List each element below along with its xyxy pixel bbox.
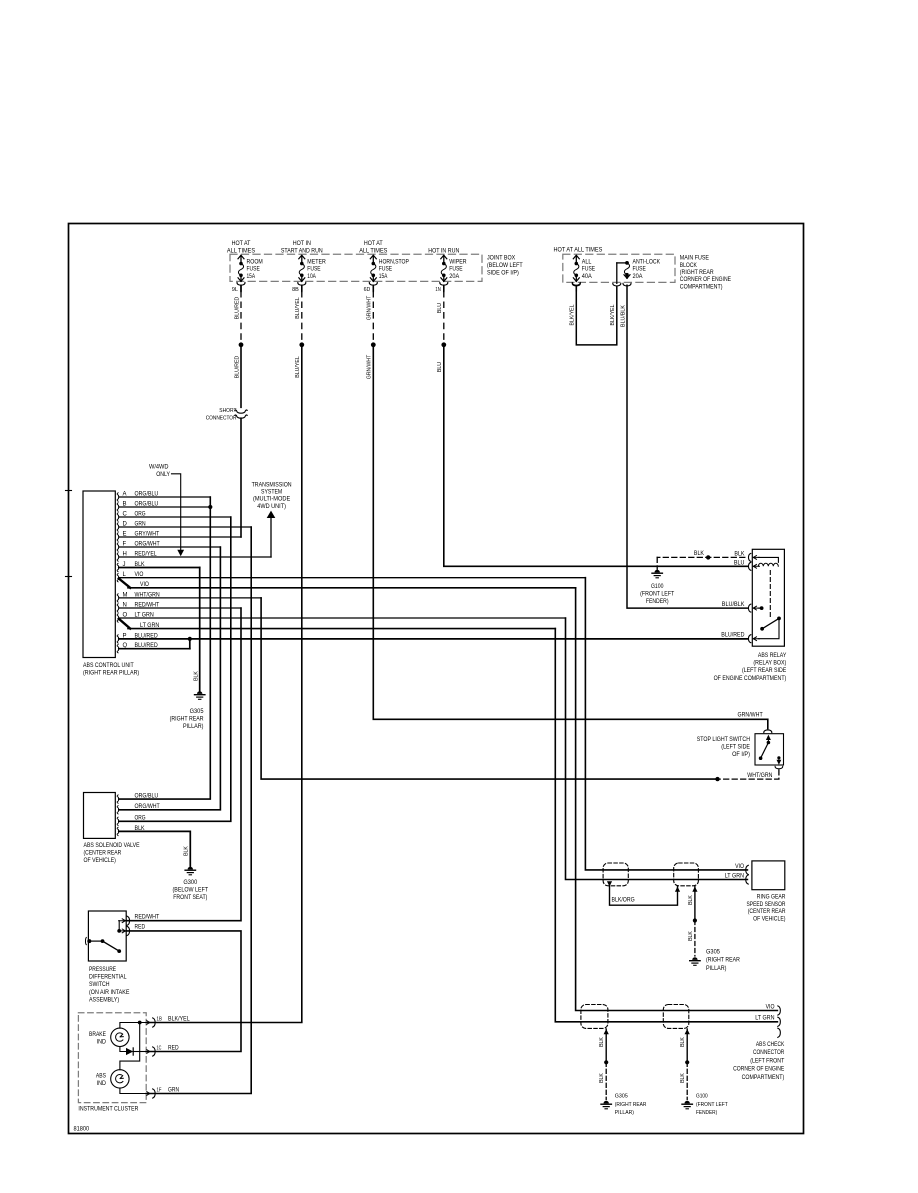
svg-text:(LEFT REAR SIDE: (LEFT REAR SIDE [742, 668, 786, 674]
svg-text:WIPER: WIPER [449, 260, 467, 266]
svg-text:SWITCH: SWITCH [89, 982, 110, 988]
VIO / LT GRN labels at sensor [725, 864, 745, 880]
wire BLK/YEL from all fuse down, right and up to anti-lock fuse [570, 263, 627, 345]
svg-text:1B: 1B [157, 1017, 163, 1023]
svg-text:START AND RUN: START AND RUN [281, 248, 323, 254]
svg-text:(CENTER REAR: (CENTER REAR [84, 851, 122, 857]
feed label at x=443.8 [428, 248, 459, 254]
pin D GRN wire [117, 521, 251, 531]
svg-text:1F: 1F [157, 1088, 162, 1094]
wire BLU/YEL from fuse (dashed drop with junction) [295, 285, 304, 377]
svg-text:LT GRN: LT GRN [135, 612, 154, 618]
svg-text:BLK: BLK [680, 1037, 686, 1047]
svg-text:J: J [123, 562, 126, 568]
svg-text:VIO: VIO [135, 572, 144, 578]
svg-text:HOT IN RUN: HOT IN RUN [428, 248, 459, 254]
svg-text:GRY/WHT: GRY/WHT [135, 531, 160, 537]
ABS relay box K1 [752, 549, 784, 646]
svg-text:HOT AT ALL TIMES: HOT AT ALL TIMES [554, 247, 603, 253]
svg-text:ABS CONTROL UNIT: ABS CONTROL UNIT [83, 663, 134, 669]
wire BLU/RED from fuse (dashed drop with junction) [234, 285, 243, 378]
svg-text:G305: G305 [615, 1094, 628, 1100]
ABS check connector label [733, 1042, 785, 1081]
svg-text:INSTRUMENT CLUSTER: INSTRUMENT CLUSTER [78, 1107, 139, 1113]
VIO / LT GRN labels at check connector [755, 1004, 775, 1021]
svg-text:ROOM: ROOM [247, 260, 263, 266]
svg-text:SHORT: SHORT [219, 408, 237, 414]
svg-text:9L: 9L [232, 287, 238, 293]
svg-text:4WD UNIT): 4WD UNIT) [257, 504, 286, 510]
svg-text:SPEED SENSOR: SPEED SENSOR [747, 902, 787, 908]
svg-text:C: C [123, 511, 128, 517]
pin Q BLU/RED wire [117, 643, 190, 653]
svg-text:FUSE: FUSE [449, 267, 462, 273]
svg-text:BLU: BLU [734, 560, 745, 566]
svg-text:10A: 10A [307, 274, 316, 280]
svg-text:ANTI-LOCK: ANTI-LOCK [633, 260, 661, 266]
ABS solenoid valve box [84, 793, 116, 839]
svg-text:SYSTEM: SYSTEM [261, 490, 282, 496]
svg-text:GRN: GRN [135, 521, 146, 527]
pin N RED/WHT wire [117, 602, 241, 612]
cluster pin labels [157, 1017, 191, 1094]
room fuse 15A [232, 255, 263, 293]
LT GRN wire from pin O fork to ABS check connector [555, 629, 777, 1022]
feed label at x=241.0 [227, 241, 255, 254]
svg-text:LT GRN: LT GRN [140, 623, 159, 629]
ground G100 (check connector drain) [682, 1094, 728, 1116]
pressure differential switch label [89, 967, 129, 1004]
svg-text:(LEFT SIDE: (LEFT SIDE [721, 744, 750, 750]
svg-text:G300: G300 [183, 880, 198, 886]
pin A ORG/BLU wire [117, 491, 210, 501]
svg-text:(BELOW LEFT: (BELOW LEFT [487, 263, 523, 269]
svg-text:LT GRN: LT GRN [755, 1016, 774, 1022]
svg-text:FUSE: FUSE [379, 267, 392, 273]
svg-text:HORN,STOP: HORN,STOP [379, 260, 409, 266]
svg-text:20A: 20A [449, 274, 459, 280]
wire GRN/WHT from horn,stop fuse down and right to stop light switch [373, 345, 768, 729]
svg-text:FUSE: FUSE [247, 267, 260, 273]
svg-text:P: P [123, 633, 127, 639]
svg-text:HOT AT: HOT AT [232, 241, 251, 247]
svg-text:M: M [123, 592, 128, 598]
svg-text:TRANSMISSION: TRANSMISSION [252, 483, 292, 489]
svg-text:Q: Q [123, 643, 128, 649]
BLK/ORG shield link wire [607, 881, 680, 905]
RED bus from pressure differential switch down to cluster 1C pin [126, 931, 241, 1052]
svg-text:BLK/ORG: BLK/ORG [612, 898, 635, 904]
BLK dashed wire from relay to ground G100 [657, 551, 745, 569]
svg-text:BLU: BLU [437, 303, 443, 313]
svg-text:RED/YEL: RED/YEL [135, 551, 158, 557]
svg-text:BLK/YEL: BLK/YEL [610, 304, 616, 326]
svg-text:BLK: BLK [193, 671, 199, 681]
svg-text:ORG: ORG [135, 511, 146, 517]
svg-text:OF VEHICLE): OF VEHICLE) [84, 858, 116, 864]
transmission system note with arrow from pin H [252, 483, 292, 558]
svg-text:JOINT BOX: JOINT BOX [487, 256, 515, 262]
svg-text:B: B [123, 501, 127, 507]
pin O LT GRN wire [117, 612, 565, 622]
svg-text:STOP LIGHT SWITCH: STOP LIGHT SWITCH [697, 737, 750, 743]
svg-text:(FRONT LEFT: (FRONT LEFT [696, 1102, 728, 1108]
meter fuse 10A [292, 255, 326, 293]
pin O fork second LT GRN wire [119, 619, 556, 629]
svg-text:ORG/BLU: ORG/BLU [135, 501, 159, 507]
ring gear speed sensor box [752, 861, 785, 890]
wire BLU from wiper fuse down and right to ABS relay [444, 345, 748, 567]
ground G300 (below left front seat) [173, 867, 209, 901]
junction dot pin B to ORG/BLU bus [208, 505, 212, 509]
svg-text:1C: 1C [157, 1046, 162, 1052]
WHT/GRN bus from pin M down to stop light switch row [261, 598, 717, 779]
svg-text:RING GEAR: RING GEAR [757, 895, 786, 901]
svg-text:COMPARTMENT): COMPARTMENT) [680, 284, 723, 290]
svg-text:ORG: ORG [135, 816, 146, 822]
svg-text:ASSEMBLY): ASSEMBLY) [89, 998, 119, 1004]
svg-text:ABS RELAY: ABS RELAY [758, 653, 786, 659]
RED/WHT bus from pin N down to pressure differential switch [126, 608, 241, 921]
svg-text:BLU/RED: BLU/RED [234, 297, 240, 319]
ring gear sensor label [747, 895, 787, 923]
svg-text:8B: 8B [292, 287, 299, 293]
svg-text:(RELAY BOX): (RELAY BOX) [753, 661, 786, 667]
connector cups at main fuse block bottom edge [572, 283, 631, 286]
main fuse block label [680, 256, 731, 291]
svg-text:CONNECTOR: CONNECTOR [753, 1050, 785, 1056]
svg-text:A: A [123, 491, 127, 497]
svg-text:RED: RED [135, 925, 146, 931]
svg-text:OF I/P): OF I/P) [732, 752, 750, 758]
svg-text:ALL TIMES: ALL TIMES [359, 248, 387, 254]
svg-text:FRONT SEAT): FRONT SEAT) [173, 895, 207, 901]
horn,stop fuse 15A [364, 255, 409, 293]
svg-text:BLU/YEL: BLU/YEL [295, 297, 301, 319]
svg-text:BLK: BLK [599, 1073, 605, 1083]
svg-text:20A: 20A [633, 274, 643, 280]
cluster internal wiring [120, 1021, 146, 1094]
RED/WHT and RED labels [135, 915, 160, 931]
svg-text:FENDER): FENDER) [696, 1110, 717, 1116]
ABS relay label [714, 653, 787, 682]
svg-text:HOT IN: HOT IN [293, 241, 311, 247]
wire BLU/RED from short connector down to pin E row [240, 418, 242, 537]
ABS solenoid valve label [84, 843, 140, 864]
svg-text:BLK: BLK [688, 895, 694, 905]
solenoid valve BLK wire to ground G300 [117, 826, 190, 867]
svg-text:W/4WD: W/4WD [149, 464, 169, 470]
svg-text:BLK: BLK [694, 551, 704, 557]
feed label at x=301.8 [281, 241, 323, 254]
main fuse block (dashed outline) [563, 254, 675, 282]
svg-text:ORG/BLU: ORG/BLU [135, 794, 159, 800]
svg-text:BLK: BLK [734, 551, 744, 557]
svg-text:N: N [123, 602, 127, 608]
ABS control unit connector box U1 [83, 491, 115, 658]
wire BLU/RED continues to short connector [240, 345, 242, 408]
relay terminal cups [748, 553, 759, 642]
ground G305 (right rear pillar) [170, 691, 205, 730]
ground G305 (check connector drain) [601, 1094, 646, 1116]
svg-text:(RIGHT REAR: (RIGHT REAR [706, 958, 740, 964]
svg-text:ORG/WHT: ORG/WHT [135, 804, 160, 810]
svg-text:(RIGHT REAR PILLAR): (RIGHT REAR PILLAR) [83, 671, 139, 677]
svg-text:1N: 1N [435, 287, 440, 293]
svg-text:RED/WHT: RED/WHT [135, 602, 160, 608]
svg-text:D: D [123, 521, 128, 527]
svg-text:15A: 15A [247, 274, 256, 280]
pin E GRY/WHT wire [117, 531, 241, 541]
solenoid valve pin ORG [117, 816, 146, 826]
svg-text:ALL TIMES: ALL TIMES [227, 248, 255, 254]
svg-text:PILLAR): PILLAR) [615, 1110, 634, 1116]
solenoid valve pin ORG/BLU [117, 794, 158, 804]
svg-text:G100: G100 [651, 584, 664, 590]
svg-text:COMPARTMENT): COMPARTMENT) [742, 1075, 785, 1081]
svg-text:CONNECTOR: CONNECTOR [206, 415, 237, 421]
svg-text:RED/WHT: RED/WHT [135, 915, 160, 921]
pressure differential switch internals [85, 916, 129, 953]
svg-text:PRESSURE: PRESSURE [89, 967, 116, 973]
svg-text:FUSE: FUSE [582, 267, 595, 273]
ORG/WHT bus from pin F down to solenoid valve [119, 547, 221, 810]
svg-text:GRN/WHT: GRN/WHT [738, 713, 763, 719]
brake indicator lamp [89, 1028, 129, 1046]
svg-text:BRAKE: BRAKE [89, 1032, 106, 1038]
svg-text:BLU/RED: BLU/RED [234, 356, 240, 378]
BLK drain from right shield to ground G305 [688, 887, 698, 957]
pin H RED/YEL wire [117, 551, 271, 561]
pin C ORG wire [117, 511, 231, 521]
border registration ticks [66, 490, 72, 492]
svg-text:(LEFT FRONT: (LEFT FRONT [750, 1058, 784, 1064]
feed label at x=373.3 [359, 241, 387, 254]
svg-text:(BELOW LEFT: (BELOW LEFT [173, 887, 209, 893]
svg-text:BLU/RED: BLU/RED [721, 633, 745, 639]
svg-text:BLU/YEL: BLU/YEL [295, 356, 301, 378]
svg-text:LT GRN: LT GRN [725, 874, 744, 880]
svg-text:BLK: BLK [688, 931, 694, 941]
svg-text:PILLAR): PILLAR) [706, 966, 727, 972]
instrument cluster dashed box [78, 1013, 146, 1103]
svg-text:BLU/BLK: BLU/BLK [620, 305, 626, 327]
cluster pin connectors [147, 1018, 155, 1098]
svg-text:BLK: BLK [680, 1073, 686, 1083]
svg-text:6D: 6D [364, 287, 371, 293]
svg-text:OF ENGINE COMPARTMENT): OF ENGINE COMPARTMENT) [714, 676, 787, 682]
ORG/BLU bus from pins A/B down to solenoid valve [119, 497, 211, 799]
svg-text:ONLY: ONLY [156, 472, 170, 478]
svg-text:HOT AT: HOT AT [364, 241, 383, 247]
svg-text:BLU: BLU [437, 362, 443, 372]
relay coil [758, 557, 778, 566]
relay actuation dashed link [769, 571, 771, 617]
svg-text:CORNER OF ENGINE: CORNER OF ENGINE [680, 277, 731, 283]
svg-text:VIO: VIO [766, 1004, 775, 1010]
svg-text:IND: IND [97, 1039, 107, 1045]
svg-text:(RIGHT REAR: (RIGHT REAR [615, 1102, 647, 1108]
svg-text:(FRONT LEFT: (FRONT LEFT [640, 592, 674, 598]
ground G305 (ring gear drain) [690, 950, 741, 972]
svg-text:E: E [123, 531, 127, 537]
svg-text:RED: RED [168, 1046, 179, 1052]
stop light switch S1 [755, 730, 784, 769]
svg-text:ABS: ABS [96, 1073, 106, 1079]
svg-text:BLU/RED: BLU/RED [135, 643, 159, 649]
svg-text:CORNER OF ENGINE: CORNER OF ENGINE [733, 1067, 784, 1073]
svg-text:METER: METER [307, 260, 326, 266]
VIO wire from pin L to ring gear speed sensor [585, 578, 747, 870]
svg-text:G305: G305 [190, 709, 205, 715]
svg-text:SIDE OF I/P): SIDE OF I/P) [487, 271, 519, 277]
shield around check connector wires (right) [663, 1005, 689, 1029]
pin F ORG/WHT wire [117, 541, 220, 551]
svg-text:VIO: VIO [140, 582, 149, 588]
svg-text:GRN/WHT: GRN/WHT [367, 295, 373, 320]
svg-text:F: F [123, 541, 127, 547]
check connector terminal cups [778, 1006, 781, 1038]
joint box (dashed outline) [230, 254, 482, 281]
shield around ring gear wires (right) [674, 863, 699, 886]
diagram border frame [69, 224, 804, 1134]
svg-text:FUSE: FUSE [307, 267, 320, 273]
shield around check connector wires (left) [581, 1005, 608, 1029]
svg-text:BLK: BLK [599, 1037, 605, 1047]
svg-text:ORG/BLU: ORG/BLU [135, 491, 159, 497]
svg-text:40A: 40A [582, 274, 592, 280]
W/4WD ONLY note with arrow to pin H [149, 464, 184, 556]
svg-text:DIFFERENTIAL: DIFFERENTIAL [89, 975, 127, 981]
svg-text:G100: G100 [696, 1094, 708, 1100]
svg-text:BLK/YEL: BLK/YEL [570, 304, 576, 326]
svg-text:GRN: GRN [168, 1088, 179, 1094]
svg-text:MAIN FUSE: MAIN FUSE [680, 256, 709, 262]
BLK drain from left shield to ground G305 [599, 1029, 609, 1100]
svg-text:WHT/GRN: WHT/GRN [747, 773, 772, 779]
pressure differential switch box [88, 911, 126, 961]
svg-text:ABS CHECK: ABS CHECK [756, 1042, 784, 1048]
pin M WHT/GRN wire [117, 592, 261, 602]
svg-text:ALL: ALL [582, 260, 592, 266]
svg-text:(CENTER REAR: (CENTER REAR [748, 909, 786, 915]
ORG bus from pin C down to solenoid valve [119, 517, 231, 821]
anti-lock fuse 20A [624, 260, 660, 280]
pin J BLK wire [117, 562, 200, 572]
shield around ring gear wires (left) [603, 863, 628, 886]
ring gear sensor terminal cups [746, 865, 749, 884]
svg-text:81800: 81800 [74, 1127, 90, 1133]
stop light switch label [697, 737, 750, 758]
svg-text:GRN/WHT: GRN/WHT [367, 354, 373, 379]
BLK wire from pin J down to ground G305 [193, 568, 199, 692]
ground G100 (front left fender) [640, 570, 674, 605]
svg-text:(RIGHT REAR: (RIGHT REAR [170, 717, 204, 723]
BLK drain from right shield to ground G100 [680, 1029, 690, 1100]
joint box label [487, 256, 523, 277]
pin L fork second VIO wire [119, 579, 576, 589]
pin B ORG/BLU wire [117, 501, 210, 511]
svg-text:BLU/RED: BLU/RED [135, 633, 159, 639]
wire Q to P junction [189, 639, 191, 649]
svg-text:G305: G305 [706, 950, 721, 956]
svg-text:FUSE: FUSE [633, 267, 646, 273]
junction dot P/Q tie [188, 637, 192, 641]
svg-text:FENDER): FENDER) [646, 599, 669, 605]
svg-text:(RIGHT REAR: (RIGHT REAR [680, 270, 714, 276]
svg-text:15A: 15A [379, 274, 388, 280]
WHT/GRN dashed wire from stop light switch [715, 770, 779, 782]
LT GRN wire from pin O to ring gear speed sensor [566, 618, 748, 880]
svg-text:ABS SOLENOID VALVE: ABS SOLENOID VALVE [84, 843, 140, 849]
solenoid valve pin ORG/WHT [117, 804, 160, 814]
svg-text:OF VEHICLE): OF VEHICLE) [753, 916, 785, 922]
ABS control unit label [83, 663, 139, 677]
pin L VIO wire [117, 572, 585, 582]
relay switch contact [758, 606, 781, 639]
short connector [206, 408, 248, 422]
relay terminal labels [721, 551, 745, 638]
wire BLU/YEL from meter fuse down to instrument cluster [146, 345, 302, 1023]
svg-text:H: H [123, 551, 127, 557]
svg-text:BLU/BLK: BLU/BLK [722, 602, 745, 608]
ABS indicator lamp [96, 1070, 129, 1088]
all fuse 40A [572, 255, 595, 291]
svg-text:(MULTI-MODE: (MULTI-MODE [253, 497, 290, 503]
wire BLU from fuse (dashed drop with junction) [437, 285, 446, 372]
svg-text:WHT/GRN: WHT/GRN [135, 592, 160, 598]
svg-text:ORG/WHT: ORG/WHT [135, 541, 160, 547]
svg-text:PILLAR): PILLAR) [183, 724, 204, 730]
wiper fuse 20A [435, 255, 467, 293]
svg-text:BLK/YEL: BLK/YEL [168, 1017, 190, 1023]
GRN bus from pin D down to cluster GRN pin [146, 527, 251, 1094]
VIO wire from pin L fork to ABS check connector [576, 588, 778, 1011]
wire BLU/BLK from anti-lock fuse down to ABS relay [620, 285, 747, 608]
svg-text:IND: IND [97, 1081, 107, 1087]
svg-text:(ON AIR INTAKE: (ON AIR INTAKE [89, 990, 129, 996]
svg-text:BLK: BLK [135, 562, 145, 568]
pin P BLU/RED wire [117, 633, 748, 643]
wire GRN/WHT from fuse (dashed drop with junction) [367, 285, 376, 379]
svg-text:BLK: BLK [184, 846, 190, 856]
svg-text:BLOCK: BLOCK [680, 263, 697, 269]
svg-text:VIO: VIO [735, 864, 744, 870]
svg-text:O: O [123, 612, 128, 618]
